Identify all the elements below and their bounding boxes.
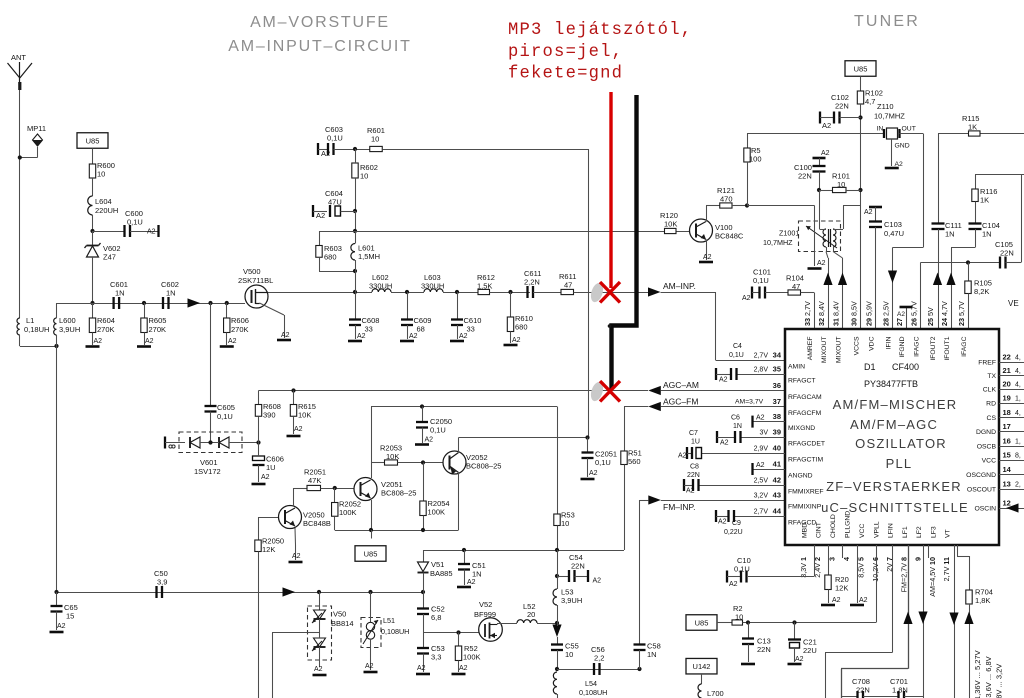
svg-text:IFIN: IFIN xyxy=(885,336,892,349)
svg-text:A2: A2 xyxy=(719,377,728,384)
svg-text:20: 20 xyxy=(527,610,535,619)
svg-text:L54: L54 xyxy=(585,679,597,688)
svg-text:15: 15 xyxy=(66,612,74,621)
svg-text:1,: 1, xyxy=(1015,439,1021,446)
svg-text:1N: 1N xyxy=(472,570,482,579)
svg-text:1N: 1N xyxy=(647,650,657,659)
svg-text:27: 27 xyxy=(895,318,904,326)
svg-text:LF1: LF1 xyxy=(902,526,909,538)
svg-text:1K: 1K xyxy=(980,196,989,205)
svg-text:U85: U85 xyxy=(854,64,868,73)
svg-text:BC848B: BC848B xyxy=(303,519,331,528)
svg-text:3V: 3V xyxy=(759,430,768,437)
svg-text:OSCOUT: OSCOUT xyxy=(967,487,996,494)
svg-text:L51: L51 xyxy=(383,616,395,625)
svg-text:10: 10 xyxy=(371,135,379,144)
svg-text:A2: A2 xyxy=(742,295,751,302)
svg-text:A2: A2 xyxy=(292,553,301,560)
svg-text:VDC: VDC xyxy=(868,336,875,350)
svg-text:21: 21 xyxy=(1003,366,1011,375)
svg-text:1N: 1N xyxy=(115,289,125,298)
svg-text:0,1U: 0,1U xyxy=(327,134,343,143)
svg-text:43: 43 xyxy=(773,491,781,500)
svg-text:A2: A2 xyxy=(895,161,904,168)
svg-text:VCCS: VCCS xyxy=(853,336,860,355)
svg-text:1U: 1U xyxy=(266,463,276,472)
svg-text:390: 390 xyxy=(263,411,276,420)
svg-text:1,: 1, xyxy=(1015,396,1021,403)
svg-text:100K: 100K xyxy=(428,508,446,517)
svg-text:RFAGCFM: RFAGCFM xyxy=(788,410,822,417)
svg-text:36: 36 xyxy=(773,381,781,390)
svg-text:22N: 22N xyxy=(798,172,812,181)
svg-text:IFGND: IFGND xyxy=(899,336,906,357)
svg-text:A2: A2 xyxy=(57,623,66,630)
svg-text:C6: C6 xyxy=(731,415,740,422)
svg-text:V51: V51 xyxy=(431,560,444,569)
svg-text:A2: A2 xyxy=(425,437,434,444)
svg-text:680: 680 xyxy=(324,253,337,262)
svg-text:29 5,9V: 29 5,9V xyxy=(865,301,874,326)
svg-text:4,: 4, xyxy=(1015,368,1021,375)
svg-text:V601: V601 xyxy=(200,458,218,467)
svg-text:A2: A2 xyxy=(459,665,468,672)
svg-text:270K: 270K xyxy=(149,325,167,334)
svg-text:47K: 47K xyxy=(308,476,321,485)
svg-text:30 8,5V: 30 8,5V xyxy=(850,301,859,326)
svg-text:A2: A2 xyxy=(314,666,323,673)
svg-text:2,7V: 2,7V xyxy=(754,353,769,360)
svg-text:47: 47 xyxy=(564,281,572,290)
svg-text:LF3: LF3 xyxy=(931,526,938,538)
svg-text:C8: C8 xyxy=(690,464,699,471)
svg-text:TX: TX xyxy=(987,373,996,380)
svg-text:22: 22 xyxy=(1003,353,1011,362)
svg-text:U85: U85 xyxy=(86,136,100,145)
svg-text:Z1001: Z1001 xyxy=(779,229,799,238)
svg-text:14: 14 xyxy=(1003,465,1012,474)
svg-text:100K: 100K xyxy=(463,653,481,662)
svg-text:RFAGCTIM: RFAGCTIM xyxy=(788,456,823,463)
svg-text:1N: 1N xyxy=(733,423,742,430)
svg-text:piros=jel,: piros=jel, xyxy=(508,43,623,62)
svg-text:U142: U142 xyxy=(693,662,711,671)
svg-text:PY38477FTB: PY38477FTB xyxy=(864,379,918,389)
svg-text:A2: A2 xyxy=(467,579,476,586)
svg-text:3,9UH: 3,9UH xyxy=(59,325,80,334)
svg-text:uC–SCHNITTSTELLE: uC–SCHNITTSTELLE xyxy=(821,500,969,515)
svg-text:0,22U: 0,22U xyxy=(724,529,743,536)
svg-text:BC848C: BC848C xyxy=(715,232,744,241)
svg-text:A2: A2 xyxy=(822,121,831,130)
svg-text:R604: R604 xyxy=(97,316,115,325)
svg-text:33: 33 xyxy=(467,325,475,334)
svg-text:A2: A2 xyxy=(357,333,366,340)
svg-text:22N: 22N xyxy=(1000,249,1014,258)
svg-text:9: 9 xyxy=(914,557,923,561)
svg-text:RFAGCDET: RFAGCDET xyxy=(788,440,825,447)
svg-text:A2: A2 xyxy=(864,209,873,216)
svg-text:0,47U: 0,47U xyxy=(884,229,904,238)
svg-text:3,9: 3,9 xyxy=(157,578,167,587)
svg-text:100K: 100K xyxy=(339,508,357,517)
svg-text:ZF–VERSTAERKER: ZF–VERSTAERKER xyxy=(826,479,962,494)
svg-text:19: 19 xyxy=(1003,394,1011,403)
svg-text:22N: 22N xyxy=(757,645,771,654)
svg-text:44: 44 xyxy=(773,507,782,516)
svg-text:R606: R606 xyxy=(231,316,249,325)
svg-text:4,: 4, xyxy=(1015,410,1021,417)
svg-text:IFAGC: IFAGC xyxy=(961,336,968,356)
svg-text:VE: VE xyxy=(1008,299,1019,308)
svg-text:28 2,5V: 28 2,5V xyxy=(882,301,891,326)
svg-text:IN: IN xyxy=(877,126,884,133)
svg-text:470: 470 xyxy=(720,195,733,204)
svg-text:22N: 22N xyxy=(687,472,700,479)
svg-text:FREF: FREF xyxy=(978,360,996,367)
svg-text:20: 20 xyxy=(1003,380,1011,389)
svg-text:22N: 22N xyxy=(571,562,585,571)
svg-text:A2: A2 xyxy=(316,211,325,220)
svg-text:MP11: MP11 xyxy=(27,124,46,133)
svg-text:Z110: Z110 xyxy=(877,102,894,111)
svg-text:AM=3,7V: AM=3,7V xyxy=(735,399,764,406)
svg-text:RFAGCT: RFAGCT xyxy=(788,377,816,384)
svg-text:17: 17 xyxy=(1003,422,1011,431)
svg-text:39: 39 xyxy=(773,428,781,437)
svg-text:A2: A2 xyxy=(409,333,418,340)
svg-text:22U: 22U xyxy=(803,646,817,655)
svg-text:10,2V 6: 10,2V 6 xyxy=(871,557,880,582)
svg-text:220UH: 220UH xyxy=(95,206,118,215)
svg-text:A2: A2 xyxy=(718,519,727,526)
svg-text:OSCGND: OSCGND xyxy=(966,472,996,479)
svg-text:AMREF: AMREF xyxy=(807,337,814,361)
svg-text:MIXOUT: MIXOUT xyxy=(821,337,828,363)
svg-text:MIXGND: MIXGND xyxy=(788,425,815,432)
svg-text:0,108UH: 0,108UH xyxy=(381,627,409,636)
svg-text:PLL: PLL xyxy=(886,456,913,471)
svg-text:0,1U: 0,1U xyxy=(753,276,769,285)
svg-text:BC808–25: BC808–25 xyxy=(466,462,501,471)
svg-text:2,7V: 2,7V xyxy=(754,509,769,516)
svg-text:L700: L700 xyxy=(707,689,724,698)
svg-text:TUNER: TUNER xyxy=(854,13,920,30)
svg-text:A2: A2 xyxy=(281,332,290,339)
svg-text:22N: 22N xyxy=(856,686,870,695)
svg-text:330UH: 330UH xyxy=(369,282,392,291)
svg-text:C4: C4 xyxy=(733,343,742,350)
svg-text:42: 42 xyxy=(773,476,781,485)
svg-text:2,8V ... 3,2V: 2,8V ... 3,2V xyxy=(995,664,1004,698)
svg-text:Z47: Z47 xyxy=(103,253,116,262)
svg-text:2,2: 2,2 xyxy=(594,654,604,663)
svg-text:2,8V: 2,8V xyxy=(754,367,769,374)
svg-text:1N: 1N xyxy=(166,289,176,298)
svg-text:MBD: MBD xyxy=(802,523,809,538)
svg-text:A2: A2 xyxy=(729,581,738,588)
svg-text:1U: 1U xyxy=(691,439,700,446)
svg-text:A2: A2 xyxy=(756,462,765,469)
svg-text:270K: 270K xyxy=(97,325,115,334)
svg-text:3,3: 3,3 xyxy=(431,653,441,662)
svg-text:3,9UH: 3,9UH xyxy=(561,596,582,605)
svg-text:RD: RD xyxy=(986,401,996,408)
svg-text:A2: A2 xyxy=(261,474,270,481)
svg-text:330UH: 330UH xyxy=(421,282,444,291)
svg-text:3,2V: 3,2V xyxy=(754,493,769,500)
svg-text:1,36V ... 5,27V: 1,36V ... 5,27V xyxy=(973,650,982,698)
svg-text:VT: VT xyxy=(945,529,952,538)
svg-text:0,18UH: 0,18UH xyxy=(24,325,49,334)
svg-text:10K: 10K xyxy=(298,411,311,420)
svg-text:L1: L1 xyxy=(26,316,34,325)
svg-text:13: 13 xyxy=(1003,480,1011,489)
svg-text:6,8: 6,8 xyxy=(431,613,441,622)
svg-text:26 5,7V: 26 5,7V xyxy=(910,301,919,326)
svg-text:BB814: BB814 xyxy=(331,619,354,628)
svg-text:18: 18 xyxy=(1003,408,1011,417)
svg-text:560: 560 xyxy=(628,457,641,466)
svg-text:CLK: CLK xyxy=(983,387,997,394)
svg-text:CF400: CF400 xyxy=(892,362,919,372)
svg-text:3,3V 1: 3,3V 1 xyxy=(799,557,808,578)
svg-text:10K: 10K xyxy=(664,220,677,229)
svg-text:10,7MHZ: 10,7MHZ xyxy=(763,238,793,247)
svg-text:IFAGC: IFAGC xyxy=(913,336,920,356)
svg-text:12K: 12K xyxy=(262,545,275,554)
svg-text:A2: A2 xyxy=(589,470,598,477)
svg-text:10: 10 xyxy=(561,519,569,528)
svg-text:1SV172: 1SV172 xyxy=(194,467,221,476)
svg-text:38: 38 xyxy=(773,412,781,421)
svg-text:1,5K: 1,5K xyxy=(477,282,492,291)
svg-text:A2: A2 xyxy=(417,665,426,672)
svg-text:C605: C605 xyxy=(217,403,235,412)
svg-text:41: 41 xyxy=(773,460,781,469)
svg-text:C9: C9 xyxy=(732,520,741,527)
svg-text:4,7: 4,7 xyxy=(865,97,875,106)
svg-text:U85: U85 xyxy=(364,549,378,558)
svg-text:33 2,7V: 33 2,7V xyxy=(803,301,812,326)
svg-text:AMIN: AMIN xyxy=(788,363,805,370)
svg-text:0,1U: 0,1U xyxy=(734,565,750,574)
svg-text:680: 680 xyxy=(515,323,528,332)
svg-text:R605: R605 xyxy=(149,316,167,325)
svg-text:1,5MH: 1,5MH xyxy=(358,252,380,261)
svg-text:U85: U85 xyxy=(695,618,709,627)
svg-text:AM–VORSTUFE: AM–VORSTUFE xyxy=(250,14,390,31)
svg-text:0,108UH: 0,108UH xyxy=(579,688,607,697)
svg-text:AM–INPUT–CIRCUIT: AM–INPUT–CIRCUIT xyxy=(228,38,411,55)
svg-text:24 4,7V: 24 4,7V xyxy=(940,301,949,326)
svg-text:10: 10 xyxy=(565,650,573,659)
svg-text:8,: 8, xyxy=(1015,453,1021,460)
svg-text:A2: A2 xyxy=(94,338,103,345)
svg-text:GND: GND xyxy=(895,143,910,150)
svg-text:A2: A2 xyxy=(720,440,729,447)
svg-text:40: 40 xyxy=(773,444,781,453)
svg-text:47: 47 xyxy=(792,282,800,291)
svg-text:2,: 2, xyxy=(1015,482,1021,489)
svg-text:AGC–AM: AGC–AM xyxy=(663,380,699,390)
svg-text:23 5,7V: 23 5,7V xyxy=(957,301,966,326)
svg-text:fekete=gnd: fekete=gnd xyxy=(508,65,623,84)
svg-text:35: 35 xyxy=(773,365,781,374)
svg-text:10: 10 xyxy=(837,180,845,189)
svg-text:10: 10 xyxy=(360,172,368,181)
svg-text:AM/FM–AGC: AM/FM–AGC xyxy=(850,417,938,432)
svg-text:47U: 47U xyxy=(328,198,342,207)
svg-text:CINT: CINT xyxy=(816,522,823,538)
svg-text:FMMIXINP: FMMIXINP xyxy=(788,503,822,510)
svg-text:VCC: VCC xyxy=(982,458,996,465)
svg-text:OSCB: OSCB xyxy=(977,444,997,451)
svg-text:1,8K: 1,8K xyxy=(975,596,990,605)
svg-text:DGND: DGND xyxy=(976,429,996,436)
svg-text:CHOLD: CHOLD xyxy=(830,514,837,538)
svg-text:AM=4,5V 10: AM=4,5V 10 xyxy=(928,557,937,597)
svg-text:1N: 1N xyxy=(982,230,992,239)
svg-text:A2: A2 xyxy=(678,453,687,460)
svg-text:V50: V50 xyxy=(333,610,346,619)
svg-text:33: 33 xyxy=(365,325,373,334)
svg-text:4,: 4, xyxy=(1015,382,1021,389)
svg-text:BC808–25: BC808–25 xyxy=(381,489,416,498)
svg-text:ANT: ANT xyxy=(11,53,26,62)
svg-text:ANGND: ANGND xyxy=(788,472,813,479)
svg-text:OUT: OUT xyxy=(902,126,916,133)
svg-text:A2: A2 xyxy=(756,415,765,422)
svg-text:IFOUT2: IFOUT2 xyxy=(930,336,937,360)
svg-text:8,2K: 8,2K xyxy=(974,287,989,296)
svg-text:10: 10 xyxy=(97,170,105,179)
svg-text:4,: 4, xyxy=(1015,355,1021,362)
svg-text:12K: 12K xyxy=(835,584,848,593)
svg-text:C7: C7 xyxy=(689,430,698,437)
svg-text:2SK711BL: 2SK711BL xyxy=(238,276,273,285)
svg-text:A2: A2 xyxy=(859,597,868,604)
svg-text:OSCIN: OSCIN xyxy=(974,506,996,513)
svg-text:A2: A2 xyxy=(459,333,468,340)
svg-text:A2: A2 xyxy=(365,663,374,670)
svg-text:A2: A2 xyxy=(703,254,712,261)
svg-text:OSZILLATOR: OSZILLATOR xyxy=(855,436,947,451)
svg-text:BF999: BF999 xyxy=(474,610,496,619)
svg-text:CS: CS xyxy=(987,415,997,422)
svg-text:25 5V: 25 5V xyxy=(926,307,935,326)
svg-text:A2: A2 xyxy=(228,338,237,345)
svg-text:68: 68 xyxy=(417,325,425,334)
svg-text:32 8,4V: 32 8,4V xyxy=(817,301,826,326)
svg-text:0,1U: 0,1U xyxy=(729,352,744,359)
svg-text:16: 16 xyxy=(1003,437,1011,446)
svg-text:VPLL: VPLL xyxy=(874,521,881,538)
svg-text:10,7MHZ: 10,7MHZ xyxy=(874,112,905,121)
svg-text:A2: A2 xyxy=(294,426,303,433)
svg-text:0,1U: 0,1U xyxy=(127,218,143,227)
svg-text:FMMIXREF: FMMIXREF xyxy=(788,488,824,495)
svg-text:LF2: LF2 xyxy=(916,526,923,538)
svg-text:IFOUT1: IFOUT1 xyxy=(944,336,951,360)
svg-text:4: 4 xyxy=(842,557,851,561)
svg-text:AM–INP.: AM–INP. xyxy=(663,281,696,291)
svg-text:V52: V52 xyxy=(479,600,492,609)
svg-text:C103: C103 xyxy=(884,220,902,229)
svg-text:1,8N: 1,8N xyxy=(892,686,908,695)
svg-text:A2: A2 xyxy=(147,229,156,236)
svg-text:2,7V 11: 2,7V 11 xyxy=(942,557,951,581)
svg-text:15: 15 xyxy=(1003,451,1011,460)
svg-text:A2: A2 xyxy=(897,311,905,318)
svg-text:10: 10 xyxy=(735,613,743,622)
svg-text:V500: V500 xyxy=(243,267,261,276)
svg-text:AGC–FM: AGC–FM xyxy=(663,397,698,407)
svg-text:100: 100 xyxy=(749,155,762,164)
svg-text:VCC: VCC xyxy=(859,524,866,538)
svg-text:AM/FM–MISCHER: AM/FM–MISCHER xyxy=(833,397,958,412)
svg-text:A2: A2 xyxy=(821,150,830,157)
svg-text:2,9V: 2,9V xyxy=(754,446,769,453)
svg-text:0,1U: 0,1U xyxy=(217,412,233,421)
svg-text:1K: 1K xyxy=(968,123,977,132)
svg-text:LFIN: LFIN xyxy=(888,523,895,538)
svg-text:A2: A2 xyxy=(593,578,602,585)
svg-text:FM–INP.: FM–INP. xyxy=(663,502,695,512)
svg-text:37: 37 xyxy=(773,397,781,406)
svg-text:FM=2,7V 8: FM=2,7V 8 xyxy=(900,557,909,592)
svg-text:MP3 lejátszótól,: MP3 lejátszótól, xyxy=(508,21,692,40)
svg-text:A2: A2 xyxy=(145,338,154,345)
svg-text:31 8,4V: 31 8,4V xyxy=(832,301,841,326)
svg-text:D1: D1 xyxy=(864,362,876,372)
svg-text:L600: L600 xyxy=(59,316,76,325)
svg-text:0,1U: 0,1U xyxy=(595,458,611,467)
svg-text:2,5V: 2,5V xyxy=(754,478,769,485)
svg-text:270K: 270K xyxy=(231,325,249,334)
svg-text:12: 12 xyxy=(1003,499,1011,508)
svg-text:10K: 10K xyxy=(386,452,399,461)
svg-text:34: 34 xyxy=(773,351,782,360)
svg-text:MIXOUT: MIXOUT xyxy=(835,337,842,363)
svg-text:A2: A2 xyxy=(832,597,841,604)
svg-text:2,2N: 2,2N xyxy=(524,278,540,287)
svg-text:22N: 22N xyxy=(835,102,849,111)
svg-text:0,1U: 0,1U xyxy=(430,426,446,435)
svg-text:BA885: BA885 xyxy=(430,569,453,578)
svg-text:=3,6V ... 6,8V: =3,6V ... 6,8V xyxy=(984,656,993,698)
svg-text:A2: A2 xyxy=(817,260,826,267)
svg-text:L604: L604 xyxy=(95,197,112,206)
svg-text:A2: A2 xyxy=(512,337,521,344)
svg-text:PLLGND: PLLGND xyxy=(845,511,852,538)
svg-text:1N: 1N xyxy=(945,230,955,239)
svg-text:RFAGCAM: RFAGCAM xyxy=(788,394,822,401)
svg-text:A2: A2 xyxy=(795,656,804,663)
